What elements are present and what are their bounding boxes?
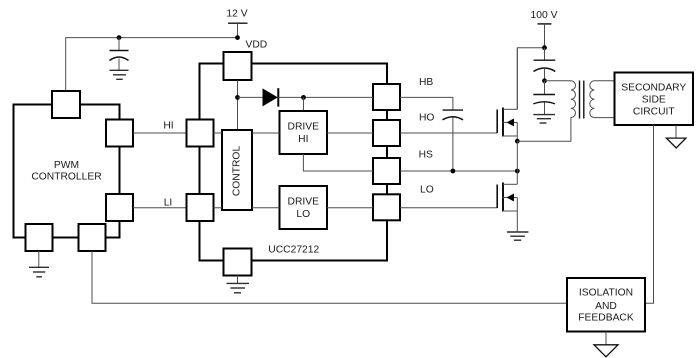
- ground under U1: [227, 276, 250, 293]
- svg-text:LO: LO: [420, 184, 434, 195]
- node cap junction: [117, 35, 122, 40]
- svg-text:12 V: 12 V: [226, 8, 247, 19]
- svg-text:CONTROL: CONTROL: [232, 146, 243, 197]
- wire diode cathode to HB: [278, 96, 373, 98]
- wire drive hi to HS: [303, 154, 373, 171]
- wire drive lo to LO: [327, 207, 373, 209]
- wire feedback: [92, 251, 567, 303]
- transformer T1 secondary: [590, 81, 615, 118]
- ground triangle secondary: [666, 125, 686, 148]
- wire to DRIVE HI top: [303, 97, 305, 111]
- pin U1 VDD: [224, 52, 252, 80]
- svg-text:SECONDARY: SECONDARY: [621, 82, 686, 93]
- wire VDD internal: [237, 80, 239, 130]
- pin U1 HB: [373, 84, 400, 110]
- wire diode anode: [238, 96, 264, 98]
- wire drive hi to HO: [327, 132, 373, 134]
- transformer T1 primary: [517, 81, 575, 141]
- pin PWM HI out: [106, 120, 133, 147]
- block ISOLATION AND FEEDBACK: [567, 278, 645, 332]
- node VDD-diode junction: [235, 95, 240, 100]
- transistor Q2 lower MOSFET: [497, 183, 517, 233]
- wire LI to control: [214, 207, 223, 209]
- node switch-primary junction: [515, 139, 520, 144]
- transformer T1 core: [580, 81, 584, 119]
- block SECONDARY SIDE CIRCUIT: [615, 73, 694, 126]
- pin PWM VDD (top): [52, 91, 80, 118]
- capacitor C1 bypass: [110, 38, 129, 71]
- wire LI: [133, 207, 187, 209]
- node cap mid junction: [542, 78, 547, 83]
- pin U1 LO: [373, 194, 400, 220]
- svg-text:HB: HB: [419, 77, 433, 88]
- svg-text:CONTROLLER: CONTROLLER: [31, 172, 101, 183]
- node 12V rail junction: [235, 35, 240, 40]
- pin U1 GND: [224, 249, 252, 276]
- svg-text:PWM: PWM: [54, 160, 79, 171]
- transistor Q1 upper MOSFET: [497, 48, 517, 142]
- wire 100V to upper drain: [517, 48, 544, 110]
- wire LO to lower gate: [400, 207, 497, 209]
- svg-text:UCC27212: UCC27212: [268, 245, 319, 256]
- capacitor C2 bootstrap: [443, 110, 464, 171]
- svg-text:HI: HI: [298, 134, 308, 145]
- diode D1 bootstrap: [263, 88, 279, 106]
- node HB-driveHI junction: [301, 95, 306, 100]
- wire HB to bootstrap cap: [400, 97, 453, 110]
- ground under PWM: [29, 251, 49, 277]
- wire HI to control: [214, 132, 223, 134]
- svg-text:HI: HI: [163, 121, 173, 132]
- svg-text:SIDE: SIDE: [642, 94, 666, 105]
- svg-text:DRIVE: DRIVE: [288, 122, 320, 133]
- ground under C4: [533, 115, 555, 123]
- pin PWM FB: [79, 224, 106, 251]
- block UCC27212 body: [200, 64, 388, 261]
- supply 12V bar: [228, 23, 248, 37]
- wire switch node to lower drain: [516, 141, 518, 184]
- ground triangle isolation: [594, 332, 618, 357]
- block DRIVE LO: [280, 186, 328, 229]
- svg-text:DRIVE: DRIVE: [288, 197, 320, 208]
- svg-text:ISOLATION: ISOLATION: [579, 288, 633, 299]
- ground under C1: [110, 70, 129, 79]
- pin U1 HI: [187, 120, 214, 147]
- block CONTROL: [222, 130, 252, 210]
- svg-text:CIRCUIT: CIRCUIT: [633, 107, 675, 118]
- pin U1 LI: [187, 194, 214, 221]
- svg-text:AND: AND: [595, 301, 617, 312]
- ground under Q2: [507, 232, 529, 240]
- svg-text:LI: LI: [164, 198, 173, 209]
- wire secondary to isolation: [645, 125, 654, 303]
- wire control to drive hi: [252, 132, 280, 134]
- wire HI: [133, 132, 187, 134]
- svg-text:HS: HS: [419, 150, 433, 161]
- supply 100V bar: [538, 24, 552, 48]
- node HS-switch junction: [515, 169, 520, 174]
- svg-text:VDD: VDD: [246, 40, 268, 51]
- svg-text:LO: LO: [296, 209, 310, 220]
- pin PWM LI out: [106, 194, 133, 221]
- svg-text:HO: HO: [419, 112, 434, 123]
- svg-text:FEEDBACK: FEEDBACK: [578, 313, 634, 324]
- capacitor C3 bus upper: [534, 48, 556, 81]
- pin U1 HO: [373, 120, 400, 146]
- node bootstrap-HS junction: [451, 169, 456, 174]
- block PWM CONTROLLER: [14, 105, 120, 238]
- capacitor C4 bus lower: [533, 81, 555, 115]
- wire 12V rail to PWM and cap: [66, 38, 238, 91]
- wire HS node: [400, 170, 517, 172]
- block DRIVE HI: [280, 111, 328, 154]
- pin PWM GND: [26, 224, 53, 251]
- wire control to drive lo: [252, 207, 280, 209]
- pin U1 HS: [373, 158, 400, 184]
- svg-text:100 V: 100 V: [531, 10, 558, 21]
- wire HO to upper gate: [400, 132, 497, 134]
- node 100V junction: [542, 45, 547, 50]
